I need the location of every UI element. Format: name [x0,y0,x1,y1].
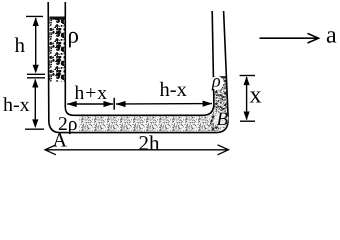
svg-text:h-x: h-x [160,79,187,101]
svg-text:ρ: ρ [68,22,79,47]
svg-text:h: h [15,33,26,57]
svg-text:x: x [250,83,262,109]
svg-text:B: B [217,109,229,130]
svg-text:a: a [326,23,337,49]
svg-text:A: A [53,130,68,152]
svg-text:h+x: h+x [75,83,109,104]
svg-text:ρ: ρ [211,71,221,91]
svg-text:h-x: h-x [3,94,30,116]
svg-text:2h: 2h [139,131,161,155]
